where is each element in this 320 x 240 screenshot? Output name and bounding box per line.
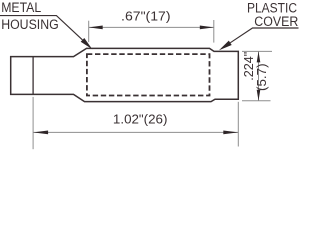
arrow right (200, 26, 214, 30)
leader line METAL HOUSING (0, 16, 92, 50)
extension line left (32, 97, 34, 149)
label METAL HOUSING (1, 0, 59, 33)
arrow bottom (257, 90, 261, 101)
label PLASTIC COVER (247, 0, 298, 30)
extension line right (237, 102, 239, 147)
extension line top (242, 50, 272, 52)
metal housing outline (11, 48, 239, 101)
svg-text:1.02"(26): 1.02"(26) (113, 111, 168, 126)
svg-text:METAL: METAL (1, 0, 41, 15)
arrow left (89, 26, 103, 30)
dimension line (33, 131, 238, 133)
extension line right (213, 20, 215, 43)
extension line left (88, 21, 90, 42)
arrow top (257, 51, 261, 62)
svg-text:(5.7): (5.7) (254, 63, 269, 91)
svg-text:HOUSING: HOUSING (1, 17, 59, 33)
arrow right (223, 131, 238, 135)
plastic cover hidden outline (dashed) (87, 54, 210, 95)
left cap divider (32, 57, 34, 95)
leader line PLASTIC COVER (219, 28, 299, 50)
dimension 1.02"(26) (33, 97, 238, 149)
arrow left (33, 131, 48, 135)
dimension .224"(5.7) (241, 51, 272, 100)
extension line bottom (242, 100, 271, 102)
dimension line (89, 26, 214, 28)
svg-text:.67"(17): .67"(17) (121, 9, 171, 24)
dimension .67"(17) (89, 9, 214, 43)
dimension line (258, 51, 260, 100)
